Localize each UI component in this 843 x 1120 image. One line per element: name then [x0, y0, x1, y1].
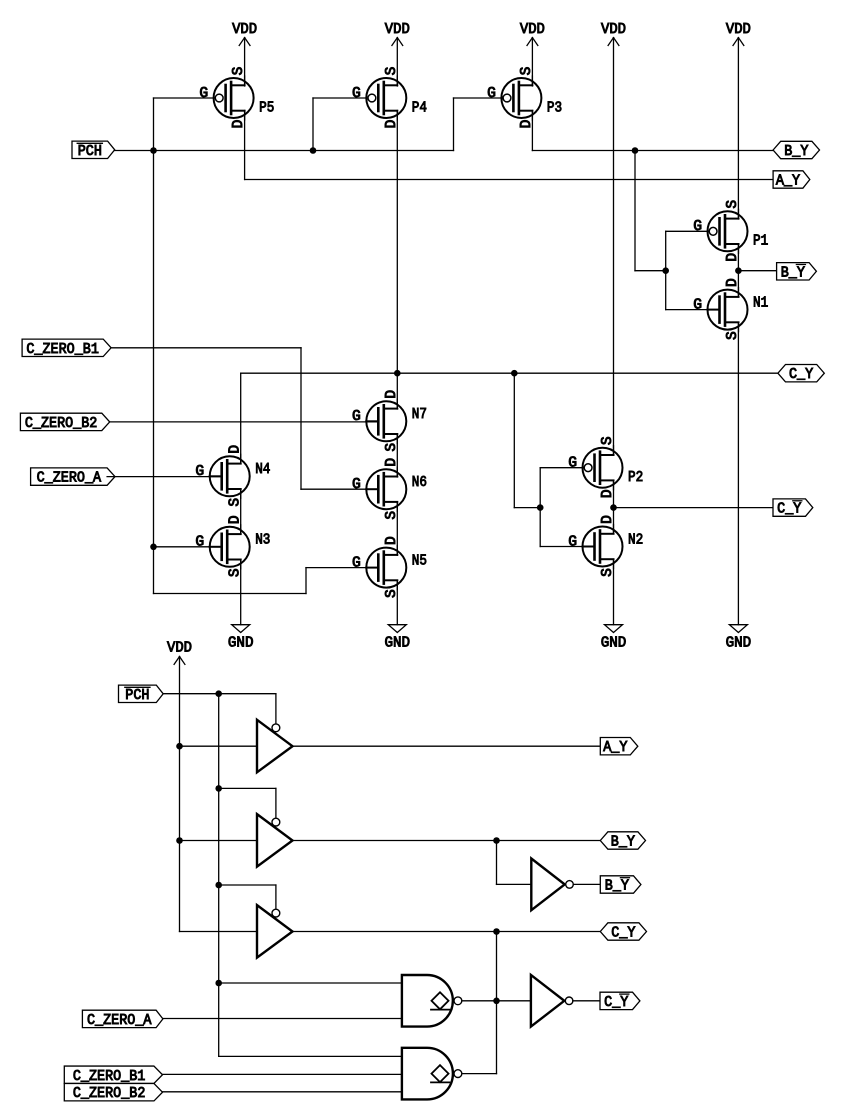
svg-text:B_Y: B_Y	[611, 835, 635, 851]
svg-text:S: S	[600, 568, 616, 577]
svg-text:P3: P3	[547, 100, 562, 116]
svg-text:A_Y: A_Y	[603, 740, 627, 756]
svg-text:C_Y: C_Y	[611, 926, 635, 942]
svg-text:A_Y: A_Y	[776, 174, 800, 190]
svg-text:C_Y: C_Y	[777, 502, 801, 518]
svg-text:G: G	[352, 477, 361, 493]
svg-text:P5: P5	[259, 100, 274, 116]
svg-text:D: D	[519, 119, 535, 128]
svg-text:G: G	[195, 464, 204, 480]
svg-text:B_Y: B_Y	[784, 144, 808, 160]
svg-text:B_Y: B_Y	[781, 265, 805, 281]
svg-text:G: G	[352, 86, 361, 102]
svg-text:N3: N3	[255, 533, 270, 549]
svg-text:G: G	[693, 297, 702, 313]
svg-text:D: D	[384, 536, 400, 545]
svg-text:D: D	[725, 278, 741, 287]
svg-text:GND: GND	[385, 636, 411, 652]
svg-text:VDD: VDD	[601, 22, 626, 38]
svg-text:C_Y: C_Y	[604, 995, 628, 1011]
svg-text:N1: N1	[753, 295, 768, 311]
svg-text:G: G	[693, 219, 702, 235]
svg-text:VDD: VDD	[385, 22, 410, 38]
svg-text:PCH: PCH	[125, 688, 149, 704]
svg-text:VDD: VDD	[232, 22, 257, 38]
svg-text:D: D	[384, 390, 400, 399]
svg-text:S: S	[227, 498, 243, 507]
svg-text:GND: GND	[228, 636, 254, 652]
svg-text:G: G	[568, 534, 577, 550]
svg-text:D: D	[384, 119, 400, 128]
svg-text:G: G	[199, 86, 208, 102]
svg-text:N6: N6	[412, 475, 427, 491]
svg-text:S: S	[600, 436, 616, 445]
svg-text:P4: P4	[412, 100, 427, 116]
svg-text:N5: N5	[412, 553, 427, 569]
svg-text:S: S	[384, 589, 400, 598]
svg-text:S: S	[519, 66, 535, 75]
svg-text:D: D	[227, 445, 243, 454]
svg-text:C_ZERO_B1: C_ZERO_B1	[26, 342, 99, 358]
svg-text:S: S	[384, 443, 400, 452]
svg-text:G: G	[195, 535, 204, 551]
svg-text:G: G	[352, 555, 361, 571]
svg-text:C_ZERO_B1: C_ZERO_B1	[73, 1069, 146, 1085]
svg-text:S: S	[384, 66, 400, 75]
svg-text:G: G	[352, 409, 361, 425]
svg-text:C_ZERO_B2: C_ZERO_B2	[25, 416, 98, 432]
svg-text:D: D	[600, 515, 616, 524]
svg-text:N7: N7	[412, 407, 427, 423]
svg-text:VDD: VDD	[726, 22, 751, 38]
svg-text:C_Y: C_Y	[789, 367, 813, 383]
svg-text:C_ZERO_A: C_ZERO_A	[87, 1013, 152, 1029]
svg-text:D: D	[725, 253, 741, 262]
svg-text:S: S	[384, 511, 400, 520]
svg-text:C_ZERO_B2: C_ZERO_B2	[73, 1086, 146, 1102]
svg-text:G: G	[568, 456, 577, 472]
svg-text:VDD: VDD	[520, 22, 545, 38]
svg-text:VDD: VDD	[167, 641, 192, 657]
svg-text:P2: P2	[628, 470, 643, 486]
svg-text:B_Y: B_Y	[605, 879, 629, 895]
svg-text:N2: N2	[628, 532, 643, 548]
svg-text:PCH: PCH	[78, 144, 102, 160]
svg-text:P1: P1	[753, 234, 768, 250]
svg-text:G: G	[487, 86, 496, 102]
svg-text:S: S	[725, 200, 741, 209]
svg-text:D: D	[600, 489, 616, 498]
svg-text:GND: GND	[726, 636, 752, 652]
svg-text:C_ZERO_A: C_ZERO_A	[37, 471, 102, 487]
svg-text:D: D	[384, 458, 400, 467]
svg-text:D: D	[231, 119, 247, 128]
svg-text:S: S	[231, 66, 247, 75]
svg-text:S: S	[227, 568, 243, 577]
svg-text:D: D	[227, 515, 243, 524]
svg-text:S: S	[725, 331, 741, 340]
svg-text:N4: N4	[255, 462, 270, 478]
svg-text:GND: GND	[601, 636, 627, 652]
